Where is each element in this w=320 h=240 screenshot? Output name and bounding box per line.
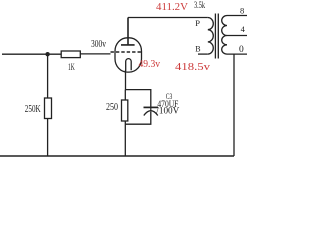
resistor R-250K <box>45 98 52 119</box>
svg-text:1K: 1K <box>68 62 75 72</box>
tube V1 cathode <box>126 59 132 71</box>
wire RC top branch <box>125 90 151 107</box>
tube V1 grid (dashed) <box>111 51 142 53</box>
wire secondary tap 0 <box>227 53 247 55</box>
transformer T1 core <box>215 14 218 59</box>
svg-text:/100V: /100V <box>156 106 180 116</box>
wire secondary tap 4 <box>227 35 247 37</box>
svg-text:418.5v: 418.5v <box>175 62 211 73</box>
wire 250 to bus <box>124 121 126 156</box>
svg-text:411.2V: 411.2V <box>156 1 188 13</box>
tube V1 plate <box>121 18 135 45</box>
transformer T1 primary winding <box>208 18 214 55</box>
svg-text:8: 8 <box>240 6 244 16</box>
wire 0 tap to ground bus <box>233 54 235 156</box>
wire plate to transformer P <box>128 17 208 19</box>
capacitor C3 <box>144 106 159 108</box>
wire B lead <box>198 53 208 55</box>
svg-text:B: B <box>195 45 200 54</box>
svg-text:300v: 300v <box>91 39 106 50</box>
svg-text:3.5k: 3.5k <box>194 0 205 10</box>
wire input horizontal <box>2 53 61 55</box>
wire C3 bottom <box>125 112 151 125</box>
svg-text:4: 4 <box>241 24 246 34</box>
node grid-junction <box>45 52 49 56</box>
svg-text:250: 250 <box>106 102 118 113</box>
wire ground bus <box>0 155 234 157</box>
wire secondary tap 8 <box>227 15 247 17</box>
svg-text:P: P <box>195 18 200 28</box>
svg-text:250K: 250K <box>25 104 41 115</box>
wire 250K to ground bus <box>47 119 49 157</box>
svg-text:0: 0 <box>239 45 244 55</box>
resistor R-250 <box>124 90 126 100</box>
wire 1K to grid <box>80 53 110 55</box>
resistor R-1K <box>61 51 80 58</box>
tube V1 envelope <box>115 38 142 72</box>
wire cathode to RC node <box>125 70 127 90</box>
transformer T1 secondary winding <box>222 16 227 55</box>
svg-text:49.3v: 49.3v <box>139 59 161 70</box>
wire junction to 250K <box>47 54 49 98</box>
